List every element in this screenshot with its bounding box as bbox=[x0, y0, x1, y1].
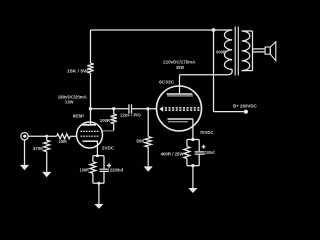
ground below R4 bbox=[42, 172, 51, 177]
svg-text:100R: 100R bbox=[59, 139, 67, 144]
wire node A to coupling cap C1 bbox=[91, 108, 129, 110]
wire 6E6P anode lead bbox=[90, 109, 92, 125]
wire secondary bottom lead bbox=[242, 70, 253, 72]
ground below R3 bbox=[144, 166, 153, 171]
V1 grid g2 dashed bbox=[81, 135, 100, 137]
wire V2 anode to OPT primary bottom bbox=[180, 70, 233, 75]
capacitor C1 22uF / PIO bbox=[129, 104, 132, 113]
node B junction dot bbox=[146, 107, 149, 110]
wire V2 cathode network bottom rail bbox=[187, 165, 199, 167]
wire V2 cathode network top rail bbox=[187, 139, 199, 141]
V1 grid g1 dashed bbox=[81, 130, 100, 132]
svg-text:6E6P: 6E6P bbox=[73, 114, 84, 119]
B+ terminal dot bbox=[244, 110, 248, 114]
wire C1 to node B bbox=[131, 108, 157, 110]
resistor R1 15K / 5W bbox=[87, 63, 93, 73]
wire V2 anode lead up bbox=[179, 75, 181, 94]
transformer T1 primary winding bbox=[224, 30, 232, 70]
svg-text:470K: 470K bbox=[33, 146, 44, 151]
wire V1 cathode down bbox=[96, 141, 98, 156]
wire V2 cathode down bbox=[192, 119, 194, 140]
V2 anode plate bars bbox=[167, 93, 193, 95]
resistor R3 50K grid leak bbox=[145, 109, 151, 167]
wire R1 bottom to node A bbox=[90, 73, 92, 109]
svg-text:70VDC: 70VDC bbox=[200, 130, 214, 135]
V2 grid arrowhead bbox=[159, 106, 163, 111]
resistor R7 400R / 25W bbox=[184, 140, 190, 166]
wire B+ rail down bbox=[213, 30, 215, 112]
svg-text:25W: 25W bbox=[176, 65, 184, 70]
wire 6E6P screen grid to R2 bottom bbox=[102, 130, 114, 132]
wire speaker stub top bbox=[253, 48, 266, 50]
V2 grid dashed row 1 bbox=[165, 107, 201, 109]
svg-text:15K / 5W: 15K / 5W bbox=[67, 68, 88, 73]
capacitor C3 100uf bbox=[198, 140, 200, 166]
transformer T1 secondary winding bbox=[242, 31, 250, 71]
svg-text:3.5W: 3.5W bbox=[65, 99, 74, 104]
svg-text:100uf: 100uf bbox=[205, 150, 215, 155]
wire cathode network top rail bbox=[93, 155, 104, 157]
input jack J1 bbox=[21, 133, 28, 140]
wire down to ground bbox=[98, 183, 100, 204]
svg-text:22uF / PIO: 22uF / PIO bbox=[120, 113, 141, 118]
svg-text:50K: 50K bbox=[136, 139, 145, 144]
tube V2 6C33C envelope bbox=[157, 86, 202, 131]
V1 anode plate bar bbox=[82, 124, 96, 126]
resistor R2 100R (anode side) bbox=[112, 107, 115, 110]
wire secondary right rail bbox=[252, 31, 254, 71]
svg-text:2VDC: 2VDC bbox=[102, 146, 115, 151]
V2 cathode bars bbox=[168, 118, 193, 120]
svg-text:100R: 100R bbox=[100, 118, 111, 123]
speaker LS1 driver box bbox=[265, 47, 270, 54]
wire secondary top lead bbox=[242, 30, 253, 32]
wire speaker stub bottom bbox=[253, 51, 266, 53]
svg-text:600R: 600R bbox=[216, 50, 226, 55]
wire to B+ terminal bbox=[214, 111, 244, 113]
tube V1 6E6P envelope bbox=[77, 122, 103, 148]
resistor R5 100R grid stopper (horizontal) bbox=[57, 134, 70, 139]
capacitor C2 2200uf bbox=[103, 156, 105, 184]
wire down to ground bbox=[192, 166, 194, 188]
resistor R4 470K bbox=[44, 136, 50, 171]
svg-text:100R: 100R bbox=[80, 168, 90, 173]
svg-text:B+ 260VDC: B+ 260VDC bbox=[233, 103, 257, 108]
wire jack to R5 bbox=[28, 135, 57, 137]
svg-text:6C33C: 6C33C bbox=[159, 79, 175, 84]
node C junction dot (470K tap) bbox=[45, 135, 48, 138]
resistor R6 100R cathode bbox=[90, 156, 96, 184]
svg-text:210vDC/175mA: 210vDC/175mA bbox=[163, 60, 196, 65]
wire cathode network bottom rail bbox=[93, 182, 104, 184]
C3 plus sign bbox=[202, 145, 206, 149]
wire R5 to 6E6P grid bbox=[70, 135, 77, 137]
wire from top rail down to R1 bbox=[90, 30, 92, 63]
ground below jack bbox=[20, 165, 29, 170]
T1 core lines bbox=[235, 27, 238, 76]
wire B+ top rail horizontal bbox=[91, 29, 233, 31]
wire jack down to ground bbox=[24, 140, 26, 165]
speaker LS1 cone bbox=[270, 42, 276, 61]
ground below V1 cathode network bbox=[94, 204, 103, 209]
svg-text:2200uf: 2200uf bbox=[110, 168, 124, 173]
ground below V2 cathode network bbox=[188, 188, 197, 193]
V1 cathode bar bbox=[83, 140, 98, 142]
svg-text:400R / 25W: 400R / 25W bbox=[161, 151, 185, 156]
C2 plus sign bbox=[107, 163, 111, 167]
node A junction dot bbox=[89, 107, 92, 110]
node D junction dot (B+ / OPT primary top) bbox=[212, 28, 216, 32]
V2 grid dashed row 2 bbox=[165, 109, 201, 111]
